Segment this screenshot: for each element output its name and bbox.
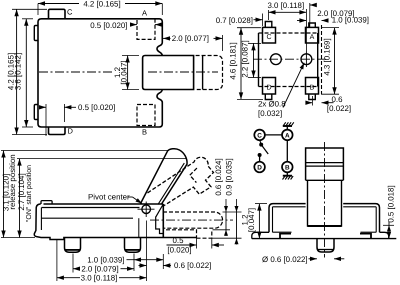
svg-text:0.5: 0.5 [173, 236, 185, 245]
front view body [269, 204, 380, 233]
svg-text:2x Ø0.8: 2x Ø0.8 [258, 99, 286, 108]
svg-text:B: B [310, 85, 315, 92]
svg-text:1.0 [0.039]: 1.0 [0.039] [87, 255, 124, 264]
svg-text:2.2 [0.087]: 2.2 [0.087] [240, 40, 249, 77]
side terminal bump 1 [65, 238, 81, 253]
bottom dim vlines [56, 240, 58, 281]
svg-text:4.2 [0.165]: 4.2 [0.165] [83, 0, 120, 8]
inner bottom ledge right [361, 231, 377, 233]
svg-text:Ø 0.6 [0.022]: Ø 0.6 [0.022] [262, 255, 308, 264]
front view centerline [324, 142, 326, 258]
svg-text:[0.022]: [0.022] [327, 104, 351, 113]
wire A-B [286, 140, 288, 162]
dim 2.7 ON [19, 159, 21, 238]
lever inner line [158, 163, 184, 204]
dim 3.6 left [25, 19, 27, 127]
hole left [271, 54, 282, 65]
schematic node A [282, 130, 293, 141]
svg-text:[0.032]: [0.032] [258, 109, 282, 118]
svg-text:3.0 [0.118]: 3.0 [0.118] [267, 1, 304, 10]
center pin [317, 239, 334, 252]
side view body outline [34, 204, 196, 240]
side view centerline [150, 219, 233, 221]
bottom view body: right edge [317, 33, 319, 87]
top view body outline [38, 19, 162, 127]
ext line release position [1, 150, 169, 152]
svg-text:2.7 [0.104]: 2.7 [0.104] [17, 173, 26, 210]
bottom view body: dashed bottom edge [259, 86, 318, 88]
head inner vline [138, 218, 140, 237]
lever front diagonal [156, 205, 163, 217]
dim 4.3 right [334, 28, 336, 95]
svg-text:3.6 [0.142]: 3.6 [0.142] [13, 53, 22, 90]
svg-text:2.0 [0.077]: 2.0 [0.077] [172, 34, 209, 43]
svg-text:D: D [68, 126, 74, 135]
terminal bump D (bottom) [49, 127, 66, 135]
dim 0.5 pad D [45, 104, 47, 136]
dim 0.5 front right [388, 222, 390, 239]
cover fold dashed line right [321, 25, 323, 94]
svg-text:"ON" start position: "ON" start position [25, 165, 33, 222]
svg-text:0.5 [0.020]: 0.5 [0.020] [90, 21, 127, 30]
svg-text:0.5 [0.018]: 0.5 [0.018] [386, 185, 395, 222]
plunger dashed (side view) [163, 212, 223, 228]
svg-text:C: C [67, 7, 73, 16]
inner bottom ledge left [273, 231, 292, 233]
dim 4.2 left [16, 9, 18, 134]
wire C-A [265, 134, 282, 136]
lower right notch [156, 217, 164, 234]
svg-text:0.6 [0.022]: 0.6 [0.022] [174, 261, 211, 270]
ground at B [286, 172, 288, 175]
dim 2.2 left [253, 43, 255, 77]
svg-text:0.7 [0.028]: 0.7 [0.028] [216, 16, 253, 25]
dim 1.0 [297, 20, 306, 22]
dim 0.6 bottom [311, 96, 313, 106]
dim 4.2 top [38, 3, 79, 5]
svg-text:D: D [266, 85, 271, 92]
pivot circle [142, 205, 151, 214]
plunger extended tip dashed [196, 56, 223, 90]
svg-text:A: A [142, 8, 147, 17]
dim 2.0 row [73, 268, 80, 270]
svg-text:C: C [257, 133, 262, 140]
side view top-left step [41, 201, 52, 204]
plunger inner line [202, 56, 204, 90]
top view left small bump upper [34, 26, 38, 41]
pad C box [263, 27, 276, 43]
plunger rod (top view) [143, 56, 194, 90]
side view inner left line [40, 208, 42, 231]
centerline top view [148, 71, 218, 73]
hidden pad A dashed box [137, 19, 155, 40]
svg-text:A: A [310, 34, 315, 41]
svg-text:C: C [266, 34, 271, 41]
side terminal bump 2 [125, 238, 141, 253]
centerline bottom view [253, 58, 327, 60]
svg-text:3.0 [0.118]: 3.0 [0.118] [81, 273, 118, 282]
ground at A [286, 126, 288, 130]
svg-text:1.0 [0.039]: 1.0 [0.039] [332, 16, 369, 25]
side view inner top line [42, 207, 140, 209]
body right lower edge [162, 204, 164, 238]
svg-text:[0.047]: [0.047] [119, 60, 128, 84]
svg-text:B: B [285, 165, 290, 172]
lever solid (release position) [140, 149, 187, 205]
svg-text:0.5 [0.020]: 0.5 [0.020] [78, 103, 115, 112]
switch blade from C [260, 140, 261, 143]
lever dashed (ON position) [148, 157, 214, 206]
svg-text:[0.020]: [0.020] [167, 246, 191, 255]
front view shaft [306, 148, 344, 180]
svg-text:[0.047]: [0.047] [247, 208, 256, 232]
svg-text:2.0 [0.079]: 2.0 [0.079] [81, 264, 118, 273]
svg-text:A: A [285, 133, 290, 140]
dim 1.2 front [258, 204, 260, 239]
svg-text:4.6 [0.181]: 4.6 [0.181] [228, 42, 237, 79]
contact dot above D [259, 156, 261, 161]
svg-text:D: D [257, 165, 262, 172]
dim 2.0 [309, 3, 311, 27]
dim 3.1 release [3, 151, 5, 238]
terminal feet inner left [280, 234, 291, 238]
terminal feet inner right [360, 234, 371, 238]
svg-text:release position: release position [8, 154, 17, 209]
hole right [301, 54, 312, 65]
ext line ON start position [17, 158, 187, 160]
right outside foot [380, 232, 389, 238]
schematic node C [254, 130, 265, 141]
svg-text:B: B [142, 128, 147, 137]
dim 2.0 plunger [163, 37, 171, 39]
svg-text:4.3 [0.169]: 4.3 [0.169] [323, 38, 332, 75]
schematic node D [254, 162, 265, 173]
pad D box [263, 78, 276, 95]
left outside foot [252, 232, 269, 238]
terminal bump C (top) [49, 9, 66, 18]
pad B box [306, 78, 319, 95]
bottom view body: dashed top edge [259, 32, 318, 34]
dim 4.6 left [240, 28, 242, 100]
side view mid line [41, 217, 133, 219]
dim 1.2 plunger width [127, 56, 129, 90]
svg-text:Pivot center: Pivot center [88, 193, 130, 202]
svg-text:0.9 [0.035]: 0.9 [0.035] [225, 158, 234, 195]
pad A box [306, 27, 319, 43]
front view shaft lower [307, 180, 309, 226]
dim 0.6/0.9 right verticals [223, 211, 242, 213]
lever dashed hook inner fold [190, 168, 197, 183]
dim 3.0 row [57, 277, 80, 279]
bottom view body: left edge [258, 33, 260, 87]
dim 0.6 row [139, 265, 147, 267]
schematic node B [282, 162, 293, 173]
front view seating line [252, 238, 396, 240]
top view left small bump lower [34, 105, 38, 120]
plunger pedestal dashed [166, 230, 212, 238]
svg-text:0.6 [0.024]: 0.6 [0.024] [214, 158, 223, 195]
hidden pad B dashed box [137, 105, 155, 126]
